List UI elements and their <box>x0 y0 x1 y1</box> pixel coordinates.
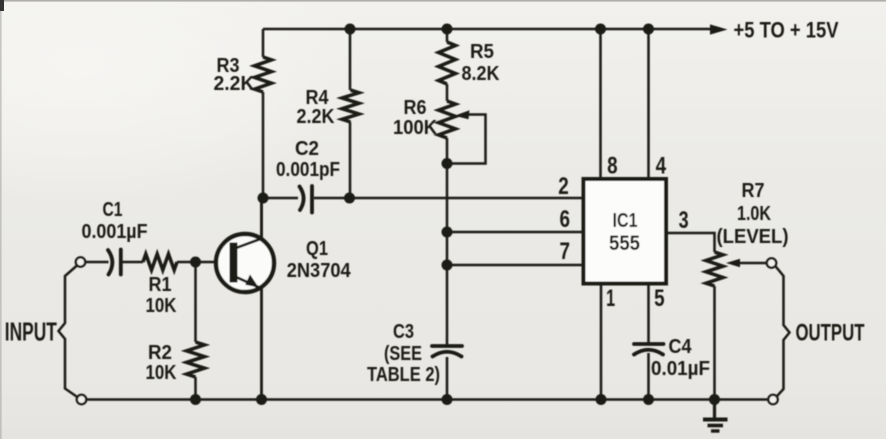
svg-text:2N3704: 2N3704 <box>287 260 352 282</box>
svg-text:C2: C2 <box>295 138 319 160</box>
svg-text:8: 8 <box>607 153 618 180</box>
svg-text:(LEVEL): (LEVEL) <box>717 226 789 248</box>
svg-text:3: 3 <box>679 207 689 234</box>
svg-text:1: 1 <box>606 285 615 312</box>
svg-text:Q1: Q1 <box>306 238 328 260</box>
svg-text:TABLE 2): TABLE 2) <box>367 364 440 386</box>
svg-text:0.01µF: 0.01µF <box>651 358 710 380</box>
svg-text:R5: R5 <box>470 41 494 63</box>
svg-text:C3: C3 <box>393 321 414 343</box>
svg-text:R2: R2 <box>148 342 172 364</box>
svg-text:OUTPUT: OUTPUT <box>796 320 865 347</box>
svg-text:7: 7 <box>560 238 571 265</box>
svg-text:10K: 10K <box>146 362 177 384</box>
svg-text:5: 5 <box>654 285 665 312</box>
svg-text:100K: 100K <box>393 117 438 139</box>
svg-text:0.001pF: 0.001pF <box>276 159 340 181</box>
svg-text:2: 2 <box>558 173 569 200</box>
svg-text:IC1: IC1 <box>613 210 638 232</box>
svg-text:C4: C4 <box>669 336 693 358</box>
svg-text:C1: C1 <box>103 199 123 221</box>
svg-text:555: 555 <box>609 232 640 255</box>
svg-text:2.2K: 2.2K <box>297 106 335 128</box>
svg-text:1.0K: 1.0K <box>737 203 771 225</box>
svg-text:R7: R7 <box>742 180 765 202</box>
svg-text:2.2K: 2.2K <box>214 73 256 95</box>
svg-text:8.2K: 8.2K <box>462 63 500 85</box>
svg-text:10K: 10K <box>146 295 177 317</box>
svg-text:R6: R6 <box>404 97 427 119</box>
svg-text:INPUT: INPUT <box>5 317 57 347</box>
svg-text:R1: R1 <box>149 274 172 296</box>
svg-text:4: 4 <box>656 153 667 180</box>
svg-text:+5 TO + 15V: +5 TO + 15V <box>734 18 839 43</box>
svg-text:(SEE: (SEE <box>384 343 422 365</box>
svg-text:0.001µF: 0.001µF <box>82 221 148 243</box>
svg-text:6: 6 <box>560 206 571 233</box>
